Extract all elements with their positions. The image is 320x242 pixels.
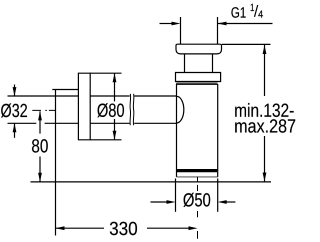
cup bottom edge <box>177 176 218 178</box>
cup thick bottom band <box>177 169 217 172</box>
pipe bottom line <box>8 122 177 124</box>
wall flange <box>78 73 90 140</box>
fraction slash for G1 1/4 <box>255 5 258 17</box>
label 80 <box>32 139 48 153</box>
cup top edge (thick) <box>176 83 218 85</box>
330 dimension line right segment <box>147 227 190 229</box>
O80 dimension line lower segment <box>114 119 116 140</box>
O80 top arrowhead <box>113 73 117 82</box>
label 4 subscript of fraction <box>258 11 263 18</box>
min-max dimension line upper segment <box>264 45 266 96</box>
cup centerline dash-dot vertical <box>197 177 199 239</box>
330 dimension line left segment <box>56 227 105 229</box>
nut (top flange) <box>176 44 222 54</box>
G1 1/4 dimension line left segment <box>160 23 174 25</box>
wall reference vertical line <box>55 90 57 236</box>
O50 dimension line left segment <box>151 201 169 203</box>
thread pipe left edge extension <box>180 17 182 44</box>
O50 right arrowhead <box>218 200 227 204</box>
O80 extension line bottom <box>90 139 121 141</box>
label G1 <box>231 7 245 18</box>
neck right edge <box>212 54 214 73</box>
O32 dimension line upper segment <box>14 85 16 97</box>
O32 bottom arrowhead <box>13 123 17 132</box>
neck left edge <box>184 54 186 73</box>
label max.287 <box>235 119 295 133</box>
O50 extension line right <box>217 179 219 212</box>
O32 dimension line lower segment <box>14 123 16 137</box>
pipe centerline dash-dot <box>32 109 55 111</box>
pipe top line <box>8 95 177 97</box>
O80 extension line top <box>90 72 121 74</box>
G1 1/4 right arrowhead <box>218 22 227 26</box>
O50 left arrowhead <box>167 200 176 204</box>
wall reference corner line horizontal <box>52 89 78 91</box>
330 right arrowhead <box>189 226 198 230</box>
O80 bottom arrowhead <box>113 131 117 140</box>
min-max bottom arrowhead <box>263 173 267 182</box>
80 dimension line lower segment <box>39 157 41 182</box>
O50 dimension line right segment <box>225 201 235 203</box>
label 1 superscript of fraction <box>251 4 254 11</box>
G1 1/4 left arrowhead <box>172 22 181 26</box>
min-max extension line top <box>222 43 271 45</box>
label min.132- <box>235 103 293 117</box>
80 top arrowhead <box>38 111 42 120</box>
ring-cup junction shading <box>176 82 217 84</box>
O50 extension line left <box>175 179 177 212</box>
O80 dimension line upper segment <box>114 73 116 101</box>
min-max top arrowhead <box>263 45 267 54</box>
bottom reference line <box>31 181 272 183</box>
pipe break squiggle <box>130 94 134 125</box>
label diameter 32 <box>1 103 27 117</box>
80 bottom arrowhead <box>38 173 42 182</box>
330 left arrowhead <box>56 226 65 230</box>
label diameter 50 <box>183 193 210 207</box>
ring flange <box>176 73 221 82</box>
cup right wall <box>217 84 219 177</box>
cup left wall <box>176 84 178 177</box>
label 330 <box>110 222 137 236</box>
min-max dimension line lower segment <box>264 136 266 182</box>
label diameter 80 <box>97 103 124 117</box>
thread pipe right edge extension <box>217 17 219 44</box>
80 dimension line upper segment <box>39 111 41 133</box>
G1 1/4 dimension line right segment (leader) <box>218 23 273 25</box>
inlet bulge arc <box>177 96 184 123</box>
O32 top arrowhead <box>13 87 17 96</box>
